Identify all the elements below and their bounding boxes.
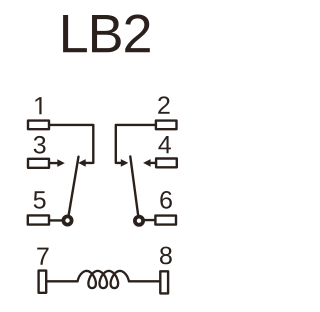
wire pin5 to pivot (50, 219, 62, 221)
pin label 1 (35, 97, 41, 114)
pivot circle left (common pole) (63, 216, 71, 224)
wire pin3 arrow shaft (50, 162, 58, 164)
wire pin4 arrow shaft (150, 162, 156, 164)
wire pin6 to pivot (145, 219, 156, 221)
terminal pin 5 (28, 215, 49, 224)
pin label 3 (34, 136, 46, 154)
terminal pin 7 (vertical) (39, 271, 47, 293)
pin label 4 (158, 136, 171, 153)
wire pin2 to NC arrow (116, 125, 156, 163)
pin label 5 (34, 191, 46, 208)
arrowhead NC right (pin2 side) (121, 159, 129, 167)
terminal pin 6 (155, 216, 176, 225)
arrowhead NC left (pin1 side) (78, 159, 86, 167)
terminal pin 3 (28, 159, 49, 168)
terminal pin 4 (156, 159, 177, 168)
terminal pin 8 (vertical) (160, 271, 168, 293)
pin label 7 (37, 248, 48, 265)
coil L1 (78, 271, 130, 288)
arrowhead pin3 right (57, 159, 65, 167)
terminal pin 2 (156, 121, 177, 130)
pin label 8 (160, 247, 172, 265)
pin label 6 (160, 191, 172, 209)
arrowhead pin4 left (143, 159, 151, 167)
switch lever right (130, 157, 138, 215)
wire pin1 to NC arrow (50, 125, 93, 163)
title LB2 (63, 14, 150, 52)
wire coil to pin8 (129, 280, 160, 282)
wire pin7 to coil L1 (47, 280, 78, 282)
switch lever left (69, 157, 79, 215)
pin label 2 (158, 96, 169, 113)
terminal pin 1 (28, 121, 49, 130)
pivot circle right (common pole) (135, 217, 143, 225)
